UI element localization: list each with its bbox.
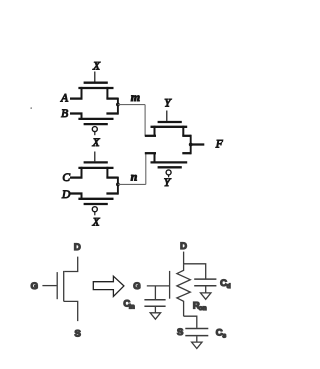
transistor M2 source lead (B) xyxy=(70,112,83,114)
mosfet Q channel xyxy=(63,271,65,302)
svg-text:n: n xyxy=(131,170,138,184)
transistor M1 gate bar xyxy=(84,82,108,84)
model drain wire xyxy=(183,252,185,265)
transistor M6 gate bar xyxy=(158,166,182,168)
ground under Cd xyxy=(201,286,211,299)
svg-text:S: S xyxy=(177,327,183,338)
transistor M6 gate bubble xyxy=(166,170,171,175)
transistor M6 channel xyxy=(151,161,188,163)
transistor M6 bubble stub xyxy=(168,175,170,177)
capacitor Cd bottom plate xyxy=(194,285,216,287)
svg-text:m: m xyxy=(131,90,140,104)
capacitor Cin bottom plate xyxy=(144,305,165,307)
transistor M2 left riser xyxy=(81,114,83,121)
transistor M4 bubble stub xyxy=(94,212,96,215)
transistor M6 drain lead xyxy=(182,152,190,154)
svg-text:G: G xyxy=(133,281,140,292)
node n dot xyxy=(116,183,120,187)
wire n horizontal xyxy=(118,183,146,185)
transistor M5 channel xyxy=(151,126,188,128)
transistor M2 channel xyxy=(78,118,113,120)
transistor M3 gate bar xyxy=(84,161,108,163)
transistor M4 channel xyxy=(78,198,113,200)
svg-text:S: S xyxy=(75,328,81,339)
transistor M6 left riser xyxy=(154,153,156,163)
transistor M4 gate bubble xyxy=(92,207,97,212)
transistor M5 source lead xyxy=(145,135,156,137)
wire right join block1 xyxy=(117,98,119,115)
svg-text:A: A xyxy=(60,92,69,104)
wire F lead xyxy=(191,143,205,145)
resistor Ron zigzag xyxy=(177,264,190,316)
wire m vertical down to Y stage xyxy=(144,105,146,136)
wire gate stub X top xyxy=(94,72,96,82)
ground under Cs xyxy=(192,336,202,348)
wire right join block2 xyxy=(117,177,119,195)
transistor M6 source lead xyxy=(145,152,156,154)
transistor M5 drain lead xyxy=(182,135,190,137)
model gate bar xyxy=(169,271,171,299)
svg-text:D: D xyxy=(180,241,187,252)
transistor M3 right riser xyxy=(106,167,108,178)
capacitor Cd top plate xyxy=(194,278,216,280)
wire resistor to S xyxy=(184,316,197,328)
transistor M5 left riser xyxy=(154,126,156,136)
mosfet Q drain lead xyxy=(64,257,77,272)
wire m horizontal xyxy=(118,104,145,106)
transistor M2 drain lead xyxy=(106,112,118,114)
transistor M1 source lead (A) xyxy=(70,97,83,99)
wire to Cd xyxy=(184,264,206,279)
capacitor Cs top plate xyxy=(185,328,208,330)
svg-text:X: X xyxy=(91,216,100,228)
transistor M1 channel xyxy=(78,87,113,89)
transistor M3 drain lead xyxy=(106,176,118,178)
transistor M1 right riser xyxy=(106,87,108,99)
transistor M3 left riser xyxy=(81,167,83,178)
transistor M4 source lead (D) xyxy=(70,192,83,194)
mosfet Q source lead xyxy=(64,301,78,321)
wire n vertical up to Y stage xyxy=(145,153,147,184)
node F dot xyxy=(189,143,193,147)
wire gate stub Y xyxy=(166,111,168,121)
transistor M1 left riser xyxy=(81,87,83,99)
wire F vertical join xyxy=(190,135,192,155)
capacitor Cin top plate xyxy=(144,299,165,301)
transistor M3 source lead (C) xyxy=(70,176,83,178)
node m dot xyxy=(116,103,120,107)
svg-text:F: F xyxy=(215,139,224,151)
svg-text:B: B xyxy=(61,108,68,120)
svg-text:X: X xyxy=(92,61,101,73)
wire gate stub X block2 xyxy=(94,152,96,162)
svg-text:G: G xyxy=(31,281,38,292)
capacitor Cs bottom plate xyxy=(185,335,208,337)
capacitor Cin drop wire xyxy=(154,286,156,299)
svg-text:in: in xyxy=(129,304,135,311)
transistor M2 gate bubble xyxy=(92,127,97,132)
block arrow xyxy=(93,276,124,296)
transistor M2 gate bar xyxy=(84,123,108,125)
svg-text:s: s xyxy=(222,332,226,339)
transistor M2 bubble stub xyxy=(94,132,96,135)
svg-text:on: on xyxy=(199,305,207,312)
mosfet Q gate lead xyxy=(42,285,56,287)
svg-text:D: D xyxy=(74,242,81,253)
mosfet Q gate bar xyxy=(56,272,58,299)
transistor M3 channel xyxy=(78,167,113,169)
svg-text:D: D xyxy=(61,189,71,201)
transistor M4 gate bar xyxy=(84,203,108,205)
svg-text:X: X xyxy=(91,137,100,149)
transistor M4 left riser xyxy=(81,194,83,201)
svg-text:Y: Y xyxy=(164,177,172,189)
transistor M5 right riser xyxy=(182,126,184,136)
svg-text:Y: Y xyxy=(164,97,172,109)
transistor M4 drain lead xyxy=(106,192,118,194)
svg-text:C: C xyxy=(62,172,70,184)
transistor M1 drain lead xyxy=(106,97,118,99)
transistor M5 gate bar xyxy=(158,121,182,123)
svg-text:d: d xyxy=(227,283,231,290)
ground under Cin xyxy=(150,307,160,319)
stray speck xyxy=(30,107,32,109)
model gate lead xyxy=(147,285,170,287)
